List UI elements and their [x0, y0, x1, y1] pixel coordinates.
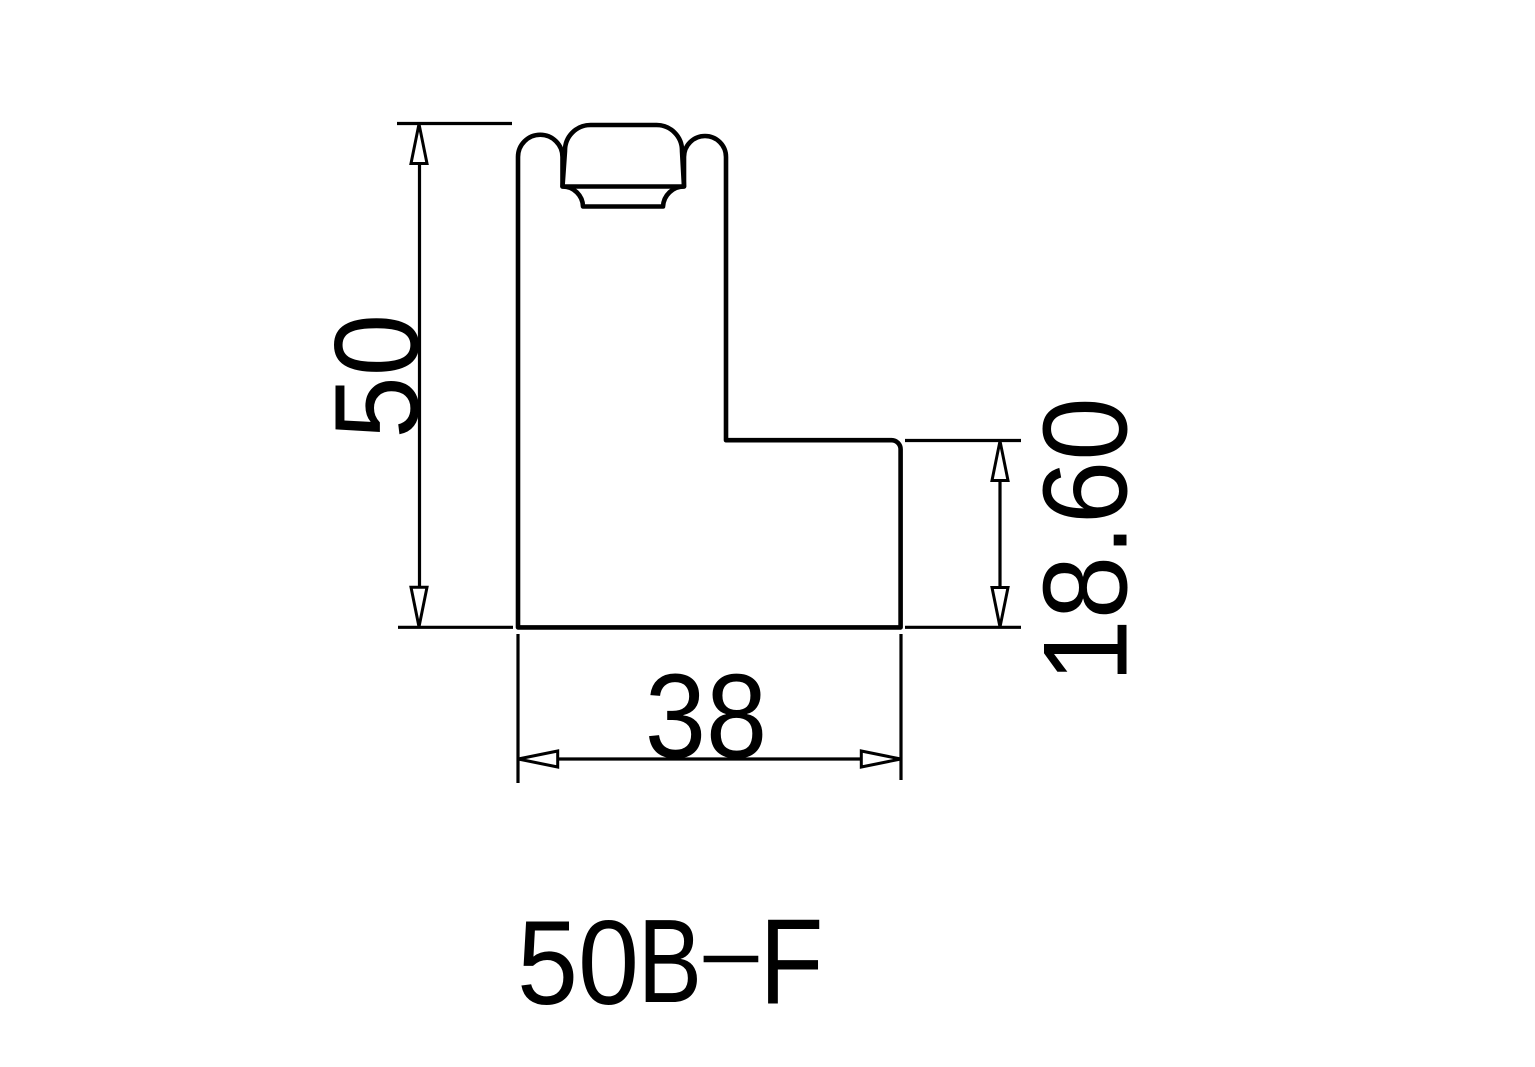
- extension line bottom-left (50 dim, bottom): [398, 626, 513, 629]
- dimension line 18.60: [998, 481, 1001, 587]
- arrow 50 bottom: [411, 587, 427, 627]
- svg-text:50: 50: [517, 896, 639, 1030]
- svg-text:18.60: 18.60: [1019, 397, 1153, 683]
- extension line below-right (38 dim): [899, 634, 902, 780]
- button dome with brim: [563, 125, 685, 187]
- arrow 50 top: [411, 124, 427, 164]
- arrow 18.60 bottom: [992, 588, 1008, 628]
- dimension line 50: [418, 164, 421, 588]
- arrow 38 left: [518, 751, 558, 767]
- arrow 18.60 top: [992, 441, 1008, 481]
- arrow 38 right: [861, 751, 901, 767]
- extension line top-right (18.60 dim, top): [905, 439, 1021, 442]
- svg-text:B: B: [638, 894, 702, 1027]
- profile body outline (L-shaped extrusion with hooks and skirt): [518, 135, 901, 628]
- extension line below-left (38 dim): [516, 634, 519, 783]
- svg-text:50: 50: [310, 314, 444, 439]
- extension line bottom-right (18.60 dim, bottom): [905, 626, 1021, 629]
- extension line top-left (50 dim, top): [397, 122, 512, 125]
- svg-text:38: 38: [645, 650, 767, 784]
- title dash: [704, 956, 759, 962]
- svg-text:F: F: [760, 894, 824, 1030]
- dimension line 38: [558, 757, 861, 760]
